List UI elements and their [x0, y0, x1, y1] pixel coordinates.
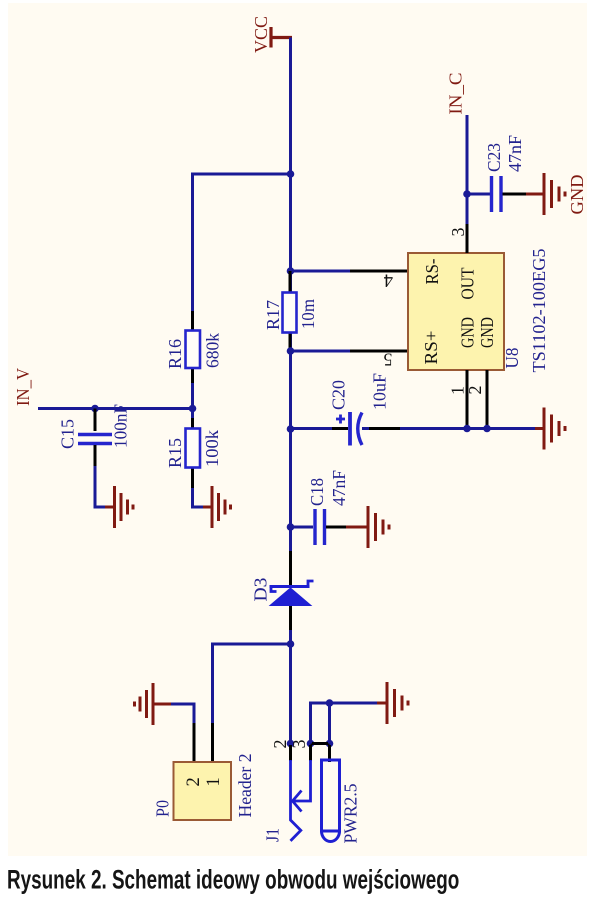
node junction pin1 [463, 425, 471, 433]
svg-text:1: 1 [204, 777, 224, 786]
wire gnd row to ground [330, 702, 379, 705]
node junction D3 anode / P0 branch [287, 640, 295, 648]
svg-text:2: 2 [270, 740, 290, 749]
svg-text:R15: R15 [165, 438, 185, 468]
svg-text:GND: GND [477, 317, 497, 348]
capacitor C15 [58, 404, 131, 466]
power port VCC [271, 27, 292, 48]
ground right of C23 [526, 173, 565, 215]
resistor R16 [165, 311, 223, 383]
node junction R16/R15 [189, 405, 197, 413]
svg-text:RS-: RS- [422, 258, 442, 284]
pin 2 of U8 [486, 370, 489, 428]
svg-text:RS+: RS+ [421, 331, 441, 365]
svg-text:TS1102-100EG5: TS1102-100EG5 [529, 249, 549, 373]
svg-text:OUT: OUT [458, 268, 478, 300]
svg-text:Header 2: Header 2 [235, 754, 255, 818]
wire IN_C to C23 [467, 193, 490, 196]
wire ground to P0 pin2 [171, 704, 194, 724]
capacitor C20 polarized [329, 373, 401, 446]
wire to P0 pin1 [213, 644, 291, 724]
capacitor C23 [484, 135, 527, 212]
pin 5 of U8 [350, 350, 408, 353]
wire D3 anode to J1 pin2 [289, 630, 292, 744]
ground right of J1 [377, 682, 408, 724]
wire R16 to IN_V node [191, 383, 194, 409]
resistor R17 [263, 271, 318, 351]
node junction pin2 [483, 425, 491, 433]
svg-text:C20: C20 [329, 380, 349, 410]
ground at P0 (left pointing) [135, 683, 173, 725]
svg-text:2: 2 [184, 777, 204, 786]
diode D3 schottky [251, 551, 314, 630]
node junction IN_C / C23 [463, 190, 471, 198]
wire pin3 to PWR [311, 742, 330, 745]
wire top branch to R16 [193, 174, 291, 311]
pin 4 of U8 [350, 270, 408, 273]
ground right of U8 [535, 408, 565, 450]
svg-text:10uF: 10uF [370, 373, 390, 410]
wire IN_C vertical [466, 115, 469, 224]
capacitor C18 [291, 470, 350, 545]
svg-text:4: 4 [384, 270, 393, 290]
IC U8 TS1102-100EG5 body [408, 253, 504, 370]
svg-text:VCC: VCC [251, 16, 271, 53]
node junction J1 pin2 [287, 740, 295, 748]
svg-text:10m: 10m [298, 299, 318, 329]
svg-text:J1: J1 [263, 828, 283, 842]
svg-text:100k: 100k [202, 430, 222, 467]
pin 3 of U8 [466, 222, 469, 253]
wire C20 row left [291, 427, 334, 430]
svg-text:47nF: 47nF [329, 470, 349, 506]
ground below C15 [105, 486, 133, 528]
wire PWR up to gnd row [328, 703, 331, 744]
node junction R17 top [287, 267, 295, 275]
svg-text:2: 2 [465, 386, 485, 395]
svg-text:GND: GND [567, 175, 587, 215]
node junction C15 tap [91, 405, 99, 413]
wire net IN_V horizontal [38, 407, 193, 410]
svg-text:P0: P0 [153, 800, 173, 817]
svg-text:47nF: 47nF [505, 135, 525, 172]
svg-text:IN_V: IN_V [13, 368, 33, 406]
svg-text:100nF: 100nF [111, 404, 131, 448]
svg-text:IN_C: IN_C [446, 73, 466, 115]
wire C20 to U8 gnd pins and ground [400, 427, 536, 430]
svg-text:PWR2.5: PWR2.5 [341, 784, 361, 844]
svg-text:680k: 680k [203, 333, 223, 368]
svg-text:C23: C23 [484, 143, 504, 172]
node junction gnd row [326, 699, 334, 707]
node junction C18 tap [287, 523, 295, 531]
connector J1 barrel jack [263, 740, 311, 843]
svg-text:3: 3 [289, 740, 309, 749]
svg-text:U8: U8 [502, 348, 522, 369]
ground right of C18 [346, 506, 389, 548]
node junction J1 pin3 [307, 740, 315, 748]
resistor R15 [165, 409, 222, 489]
svg-text:GND: GND [458, 317, 478, 348]
svg-text:3: 3 [448, 228, 468, 237]
svg-text:R16: R16 [165, 339, 185, 369]
wire to U8 pin 4 [291, 270, 353, 273]
node junction at R16 branch [287, 170, 295, 178]
connector PWR2.5 [322, 745, 361, 844]
svg-text:R17: R17 [263, 300, 283, 330]
wire main vertical rail VCC to D3 [289, 38, 292, 552]
wire C15 to ground [95, 466, 106, 507]
connector P0 Header 2 [153, 723, 256, 820]
svg-text:5: 5 [384, 350, 393, 370]
svg-text:C18: C18 [307, 478, 327, 506]
svg-text:C15: C15 [58, 419, 78, 449]
node junction R17 bottom [287, 347, 295, 355]
svg-text:D3: D3 [251, 578, 271, 602]
ground below R15 [203, 486, 231, 528]
node junction C20 tap [287, 425, 295, 433]
node junction PWR pin [326, 740, 334, 748]
pin 1 of U8 [466, 370, 469, 428]
wire R15 to ground [193, 488, 205, 507]
wire to U8 pin 5 [291, 350, 353, 353]
svg-text:Rysunek 2. Schemat ideowy obwo: Rysunek 2. Schemat ideowy obwodu wejścio… [7, 864, 459, 894]
wire pin3 up to gnd row [311, 703, 330, 744]
